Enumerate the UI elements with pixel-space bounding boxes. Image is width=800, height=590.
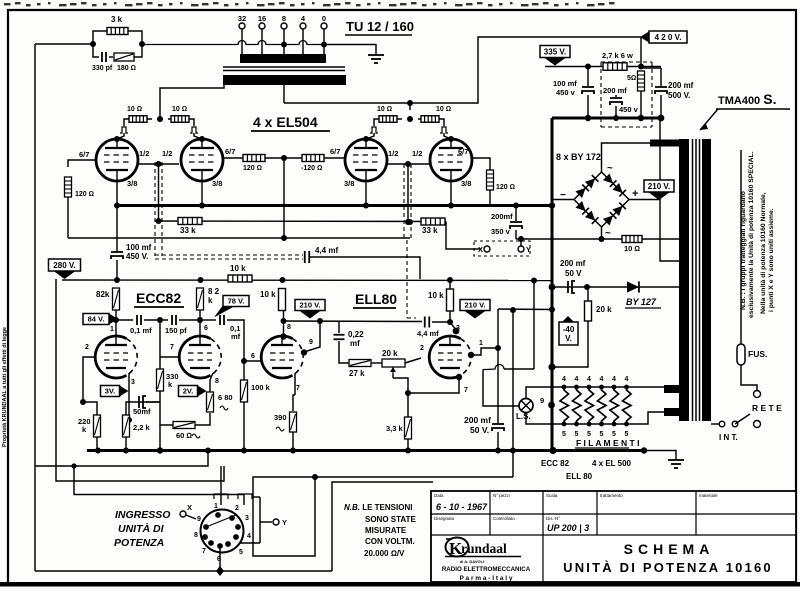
wire fuse to rete [741, 365, 757, 390]
junction heater top 3 [587, 385, 592, 390]
thick psu bus [552, 117, 661, 120]
svg-text:78 V.: 78 V. [228, 297, 245, 306]
ground bottom right [668, 455, 684, 468]
diamond t8 pin3 [453, 328, 460, 335]
svg-text:450 V.: 450 V. [126, 252, 148, 261]
Krundaal logo [445, 538, 521, 559]
svg-text:50mf: 50mf [133, 407, 151, 416]
wire cathode stem x=366 [365, 181, 367, 205]
wire tap 8 stem [283, 29, 285, 55]
topcap junction t1 [114, 136, 120, 142]
svg-text:210 V.: 210 V. [465, 301, 486, 310]
connector keyway line [206, 515, 236, 527]
svg-text:Y: Y [282, 518, 287, 527]
wire t3 topcap [366, 133, 374, 139]
svg-text:2,2 k: 2,2 k [133, 423, 151, 432]
transformer stub top [650, 140, 679, 147]
svg-text:-120 Ω: -120 Ω [301, 165, 322, 172]
capacitor 330pf [102, 52, 106, 62]
terminal 16 of TU12/160 [259, 23, 265, 29]
svg-text:6/7: 6/7 [225, 147, 235, 156]
junction psu bus c [638, 115, 644, 121]
connector bar stub top [252, 496, 260, 498]
junction 3.3k bottom [405, 448, 411, 454]
wire cap01 to cap150 [144, 319, 168, 321]
wire 330k top [159, 320, 161, 369]
junction heater bottom 3 [587, 422, 592, 427]
junction 100k bottom [241, 448, 247, 454]
wire secondary return [660, 200, 679, 262]
wire t5 grid left [83, 357, 95, 402]
wire t2 pin6/7 to resistor [223, 157, 243, 159]
svg-text:8: 8 [287, 324, 291, 331]
svg-text:trattamento: trattamento [600, 493, 623, 498]
terminal 32 of TU12/160 [239, 23, 245, 29]
wire screen line y321 [284, 320, 423, 323]
svg-text:Scala: Scala [546, 493, 558, 498]
wire t7 pin6 [244, 360, 263, 362]
svg-text:5: 5 [612, 431, 616, 438]
svg-text:1: 1 [479, 340, 483, 347]
connector pin 9 [203, 524, 209, 530]
capacitor 0.1mf b [220, 315, 224, 325]
junction 390 bottom [290, 448, 296, 454]
wire feedback to transformer tap [142, 41, 324, 45]
svg-text:8: 8 [194, 532, 198, 539]
svg-text:3V.: 3V. [105, 387, 116, 396]
svg-text:N.B. LE TENSIONI: N.B. LE TENSIONI [344, 503, 412, 512]
wire lamp feed run [504, 368, 534, 370]
svg-text:5Ω: 5Ω [627, 75, 636, 82]
wire 33k right to X [446, 222, 481, 250]
connector output bar [259, 497, 261, 543]
svg-text:SCHEMA: SCHEMA [624, 541, 715, 557]
svg-text:8: 8 [282, 14, 286, 23]
heater filament 6 [623, 387, 632, 424]
triode ECC82 b [179, 336, 221, 378]
wire cathode stem x=202 [201, 181, 203, 205]
svg-text:6 - 10 - 1967: 6 - 10 - 1967 [436, 502, 488, 512]
junction rail4 x200 [198, 277, 204, 283]
dashed psu box right [651, 62, 653, 127]
wire 60ohm left [160, 420, 173, 425]
wire cap100 bottom [587, 95, 589, 118]
capacitor 200mf 50V [492, 424, 504, 431]
wire 0.22 to 27k [339, 341, 349, 363]
junction t7 grid node [241, 358, 247, 364]
capacitor 50mf [139, 396, 146, 408]
EL504 tube at x=366 [345, 139, 387, 181]
wire network bottom right [134, 44, 142, 57]
capacitor 200mf 50V bias [568, 281, 575, 293]
wire t7 cathode [294, 373, 296, 395]
svg-text:~: ~ [605, 228, 611, 239]
torn text strip at very top of scan [4, 2, 615, 6]
svg-text:4,4 mf: 4,4 mf [315, 246, 338, 255]
svg-text:9: 9 [309, 339, 313, 346]
wire 120ohm down to rail [67, 197, 69, 238]
wire plus rail up [659, 118, 661, 200]
svg-text:UP 200 | 3: UP 200 | 3 [547, 523, 589, 533]
resistor 10k stage3 [279, 289, 286, 311]
bridge diode 3 [603, 173, 616, 186]
junction heater bottom 4 [599, 422, 604, 427]
junction screen left pair [157, 116, 163, 122]
wire cap200-50 bottom [497, 432, 499, 450]
svg-text:120 Ω: 120 Ω [243, 165, 262, 172]
junction pin1 join [495, 345, 501, 351]
bridge diode 1 [575, 185, 588, 198]
wire 0.22 stem [338, 322, 340, 334]
junction cathode x=451 [448, 203, 454, 209]
wire 82k to grid node [115, 310, 117, 320]
connector pin 8 [202, 534, 208, 540]
svg-text:2: 2 [85, 344, 89, 351]
svg-text:UNITÀ DI POTENZA 10160: UNITÀ DI POTENZA 10160 [563, 560, 773, 575]
title col c [596, 491, 598, 535]
svg-text:TU 12 / 160: TU 12 / 160 [346, 19, 414, 34]
svg-text:8: 8 [215, 378, 219, 385]
svg-text:2: 2 [235, 505, 239, 512]
junction rail4 x534 [531, 278, 537, 284]
junction step feedback [205, 448, 211, 454]
junction cathode 3.3k [405, 390, 411, 396]
svg-text:Y: Y [526, 245, 531, 254]
dashed psu box bottom [601, 126, 652, 128]
svg-text:6: 6 [251, 353, 255, 360]
svg-text:4: 4 [625, 376, 629, 383]
resistor 5ohm [638, 71, 645, 91]
wire 20k wiper tap [392, 374, 394, 378]
bridge diode 2 [585, 175, 598, 188]
svg-text:ECC 82: ECC 82 [541, 459, 570, 468]
wire t4 pin6/7 right [472, 158, 490, 170]
wire cap200-500 bottom [660, 95, 662, 118]
wire bridge top to transformer [602, 143, 651, 172]
wire screen left-pair left [124, 119, 152, 126]
svg-text:4 x EL 500: 4 x EL 500 [592, 459, 632, 468]
svg-text:100 mf: 100 mf [126, 243, 152, 252]
svg-text:32: 32 [238, 14, 246, 23]
resistor 120ohm t4 [487, 170, 494, 190]
svg-text:V.: V. [565, 334, 572, 343]
junction t5 grid bias [80, 399, 86, 405]
junction bias drop bus [510, 448, 516, 454]
resistor 3k [107, 28, 128, 35]
svg-text:10 Ω: 10 Ω [377, 106, 392, 113]
wire t4 topcap [444, 133, 451, 139]
wire primary bottom centre tap [283, 85, 285, 103]
wire 120ohm t4 down [489, 190, 491, 205]
svg-text:~: ~ [607, 163, 613, 174]
junction heater bottom 6 [624, 422, 629, 427]
wire bridge minus to rail [552, 200, 574, 206]
wire pin1 riser [497, 309, 499, 423]
svg-text:20 k: 20 k [596, 305, 612, 314]
wire anode feed right pair [409, 103, 411, 110]
wire 330k bottom [159, 391, 161, 420]
junction t5 cathode node [126, 417, 132, 423]
dashed run to 4.4mf a [155, 254, 303, 256]
wire connector feed 1 [220, 466, 222, 505]
svg-text:+: + [632, 188, 638, 200]
junction heater bottom 2 [574, 422, 579, 427]
svg-text:350 v: 350 v [491, 227, 511, 236]
underline ECC82 [134, 306, 184, 308]
terminal 4 of TU12/160 [300, 23, 306, 29]
wire tap 32 stem [241, 29, 243, 55]
svg-text:500 V.: 500 V. [668, 91, 690, 100]
wire screen right-pair left [374, 119, 402, 126]
svg-text:180 Ω: 180 Ω [117, 65, 136, 72]
pentode ELL80 b [429, 336, 471, 378]
terminal RETE top [754, 391, 761, 398]
junction nest join [312, 474, 318, 480]
terminal Y [518, 246, 524, 252]
junction heater top 5 [612, 385, 617, 390]
terminal X input [180, 511, 186, 517]
wire bottom run right [220, 570, 332, 572]
junction screen node t7 [281, 318, 287, 324]
svg-text:33 k: 33 k [422, 226, 438, 235]
svg-text:6/7: 6/7 [79, 150, 89, 159]
callout 2V [179, 386, 207, 397]
junction t7 pin9 [301, 349, 307, 355]
capacitor 100mf 450v ps [582, 87, 594, 94]
svg-text:0,22: 0,22 [348, 330, 364, 339]
junction 420V node [638, 64, 644, 70]
wire bridge plus out [629, 199, 660, 201]
svg-text:3,3 k: 3,3 k [386, 424, 404, 433]
callout 78V [214, 296, 249, 318]
connector circle [201, 510, 244, 553]
resistor 10k mid [228, 275, 252, 282]
junction psu bus d [658, 115, 665, 122]
wire cathode stem x=117 [116, 181, 118, 205]
junction rail4 x450 [447, 277, 453, 283]
junction anode feed right pair [407, 100, 413, 106]
wire cap01b to t7 grid [227, 320, 244, 361]
svg-text:7: 7 [202, 548, 206, 555]
dashed run to 4.4mf b [155, 258, 303, 260]
wire t1 pin6/7 left [68, 160, 96, 167]
capacitor 100mf 450V [111, 252, 123, 259]
resistor 82k stage1 [113, 288, 120, 310]
wire cap150 to s2 [179, 319, 200, 321]
wire cap200-450 stem [615, 95, 617, 97]
wire 5ohm node link [641, 67, 661, 69]
switch INT pole b [732, 421, 738, 427]
svg-text:4: 4 [575, 376, 579, 383]
wire Y stem [520, 239, 522, 246]
svg-text:N° pezzi: N° pezzi [493, 493, 510, 498]
svg-text:4: 4 [247, 533, 251, 540]
svg-text:1: 1 [214, 503, 218, 510]
svg-text:20.000 Ω/V: 20.000 Ω/V [364, 549, 405, 558]
underline TU12/160 [345, 34, 412, 36]
junction bus mid [549, 447, 556, 454]
bridge frame [574, 172, 629, 227]
svg-text:POTENZA: POTENZA [114, 537, 164, 549]
svg-text:1/2: 1/2 [388, 149, 398, 158]
junction bus right end [641, 447, 647, 453]
svg-text:3 k: 3 k [111, 15, 123, 24]
svg-text:7: 7 [296, 385, 300, 392]
svg-text:50 V.: 50 V. [470, 425, 489, 435]
svg-text:1/2: 1/2 [139, 149, 149, 158]
wire 100k top [243, 361, 245, 380]
thick page bottom border [0, 582, 800, 587]
wire primary left to anode pair 1 [160, 85, 224, 110]
junction bus 2.2k [123, 448, 129, 454]
svg-text:3: 3 [245, 515, 249, 522]
junction bus 160 [157, 447, 163, 453]
svg-text:6/7: 6/7 [330, 147, 340, 156]
capacitor 200mf 450v [610, 98, 622, 105]
wire 50mf to 330k [146, 401, 160, 403]
junction grids 1/2 right pair [405, 161, 411, 167]
svg-text:SONO STATE: SONO STATE [365, 515, 416, 524]
wire s2 to cap01b [200, 319, 216, 321]
wire 10k rail [116, 278, 118, 280]
junction t8 pin1 [468, 352, 474, 358]
svg-text:10 Ω: 10 Ω [127, 106, 142, 113]
fuse FUS. [737, 344, 745, 365]
junction 20k top [584, 284, 590, 290]
wire B+ 420V run [284, 37, 641, 103]
svg-text:3/8: 3/8 [461, 179, 471, 188]
callout -40V [559, 316, 578, 345]
pentode ELL80 a [261, 336, 303, 378]
TU12/160 secondary winding bar [240, 54, 326, 63]
wire grids t3 t4 [387, 163, 430, 165]
wire 4.4mf s4 to grid node [432, 321, 450, 323]
heater filament 4 [598, 387, 607, 424]
wire bridge bottom stem [601, 227, 603, 239]
wire pin6 down [219, 546, 221, 571]
solder junction diamond [216, 566, 224, 576]
wire bias line y309 [498, 308, 552, 311]
svg-text:4: 4 [600, 376, 604, 383]
connector pin 1 [215, 512, 221, 518]
bridge diode 8 [612, 203, 625, 216]
junction heater top 1 [562, 385, 567, 390]
wire 3.3k bottom [407, 439, 409, 450]
wire 350v cap stem [515, 206, 517, 222]
junction tap 8 [281, 42, 287, 48]
callout 210V bridge [644, 180, 674, 200]
wire 4.4mf to right [310, 257, 420, 262]
wire t6 cathode [210, 373, 213, 392]
svg-text:F I L A M E N T I: F I L A M E N T I [576, 438, 639, 448]
wire network top branch [93, 31, 107, 44]
switch INT lever [735, 414, 750, 424]
wire middle junction down [283, 158, 285, 238]
capacitor 4.4mf [305, 251, 310, 263]
callout 84V [83, 314, 118, 325]
capacitor 0.22mf [334, 335, 345, 340]
underline TMA400S [716, 108, 790, 110]
callout 210V stage3 [295, 300, 325, 319]
svg-text:3/8: 3/8 [344, 179, 354, 188]
svg-text:1: 1 [110, 326, 114, 333]
wire by127 row [552, 286, 679, 288]
junction y239 Y tap [518, 236, 524, 242]
title row line 1 [431, 513, 796, 515]
wire network top branch right [128, 31, 142, 44]
svg-text:FUS.: FUS. [748, 349, 767, 359]
wire 120ohm pair middle [265, 157, 302, 159]
wire 4.4mf drop [419, 262, 421, 279]
wire t8 pin3 [450, 322, 456, 330]
wire 82k s2 down [199, 310, 201, 320]
connector pin 5 [225, 541, 231, 547]
svg-text:6 80: 6 80 [218, 393, 233, 402]
connector pin 3 [235, 524, 241, 530]
svg-text:5: 5 [625, 431, 629, 438]
callout 420V [640, 31, 687, 43]
svg-text:L.S.: L.S. [516, 412, 531, 421]
svg-text:1/2: 1/2 [162, 149, 172, 158]
junction screen right pair [407, 116, 413, 122]
svg-text:335 V.: 335 V. [544, 47, 566, 56]
resistor 10ohm screen t3 [379, 116, 397, 123]
svg-text:BY 127: BY 127 [626, 297, 657, 307]
wire t8 cathode [408, 377, 459, 393]
wire filament top rail [552, 386, 664, 388]
svg-text:5: 5 [562, 431, 566, 438]
svg-text:100 mf: 100 mf [553, 79, 577, 88]
junction rail3 x284 [281, 235, 287, 241]
junction left of network [90, 41, 96, 47]
resistor 100k [241, 380, 248, 402]
EL504 tube at x=451 [430, 139, 472, 181]
svg-text:2V.: 2V. [183, 387, 194, 396]
svg-text:60 Ω: 60 Ω [176, 431, 192, 440]
svg-text:6/7: 6/7 [458, 147, 468, 156]
svg-text:ELL 80: ELL 80 [566, 472, 593, 481]
svg-text:3/8: 3/8 [212, 179, 222, 188]
junction bias bottom [548, 363, 555, 370]
wire grids t1 t2 [138, 163, 179, 165]
wire switch to transformer [711, 423, 719, 425]
svg-text:mf: mf [350, 339, 360, 348]
wire 20k to t8 grid [405, 358, 421, 363]
resistor 180 ohm [114, 53, 134, 61]
svg-text:ELL80: ELL80 [355, 291, 397, 307]
dashed drop to 4.4mf2 [406, 240, 408, 318]
svg-text:2: 2 [420, 345, 424, 352]
junction psu bus a [585, 115, 591, 121]
wire 10ohm to transformer [642, 238, 679, 240]
junction heater top 6 [624, 385, 629, 390]
svg-text:200 mf: 200 mf [603, 86, 627, 95]
wire t6 pin6 stem [199, 320, 201, 336]
connector shell [214, 494, 252, 499]
wire 2.2k bottom [125, 437, 127, 450]
topcap junction t4 [448, 136, 454, 142]
resistor 2.2k [123, 415, 130, 437]
pulse symbol tube2 top [190, 127, 198, 133]
svg-text:i punti X e Y sono uniti assie: i punti X e Y sono uniti assieme. [768, 208, 775, 312]
resistor 27k [349, 360, 371, 367]
wire cathode row [129, 401, 160, 403]
svg-text:MISURATE: MISURATE [365, 526, 407, 535]
svg-text:P a r m a - I t a l y: P a r m a - I t a l y [460, 575, 513, 582]
wire 100mf top [116, 206, 118, 253]
ground at TU12/160 [368, 50, 384, 63]
resistor 10ohm screen t2 [171, 116, 189, 123]
